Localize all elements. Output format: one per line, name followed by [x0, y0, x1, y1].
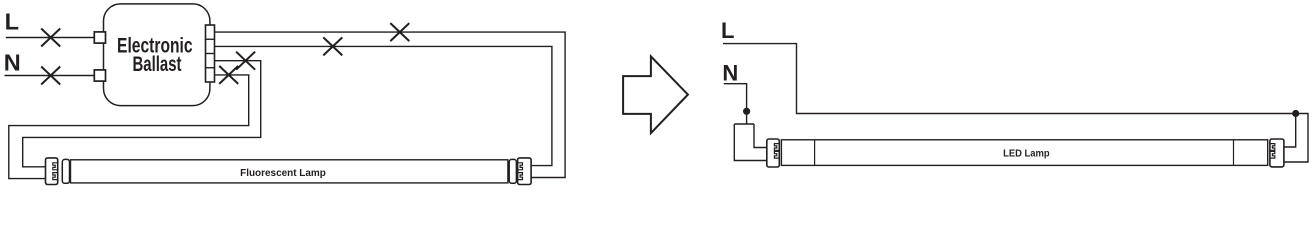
svg-text:N: N: [4, 49, 21, 75]
svg-text:Fluorescent Lamp: Fluorescent Lamp: [240, 168, 326, 179]
svg-text:N: N: [722, 61, 738, 86]
svg-text:LED Lamp: LED Lamp: [1003, 148, 1050, 159]
svg-text:Ballast: Ballast: [133, 52, 182, 76]
svg-text:L: L: [721, 18, 734, 43]
svg-text:L: L: [5, 9, 19, 35]
